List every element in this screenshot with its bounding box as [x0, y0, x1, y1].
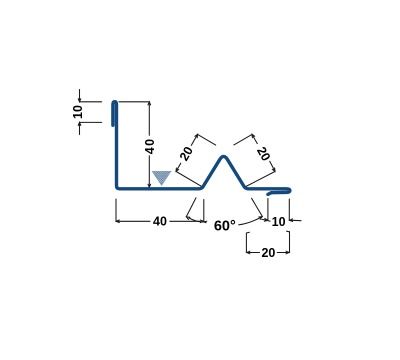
- svg-text:40: 40: [153, 215, 167, 229]
- svg-text:10: 10: [272, 215, 286, 229]
- svg-text:20: 20: [177, 144, 196, 163]
- svg-text:20: 20: [254, 144, 273, 163]
- svg-text:60°: 60°: [214, 219, 236, 235]
- svg-text:20: 20: [261, 246, 275, 260]
- svg-text:40: 40: [143, 138, 157, 155]
- svg-text:10: 10: [71, 105, 85, 119]
